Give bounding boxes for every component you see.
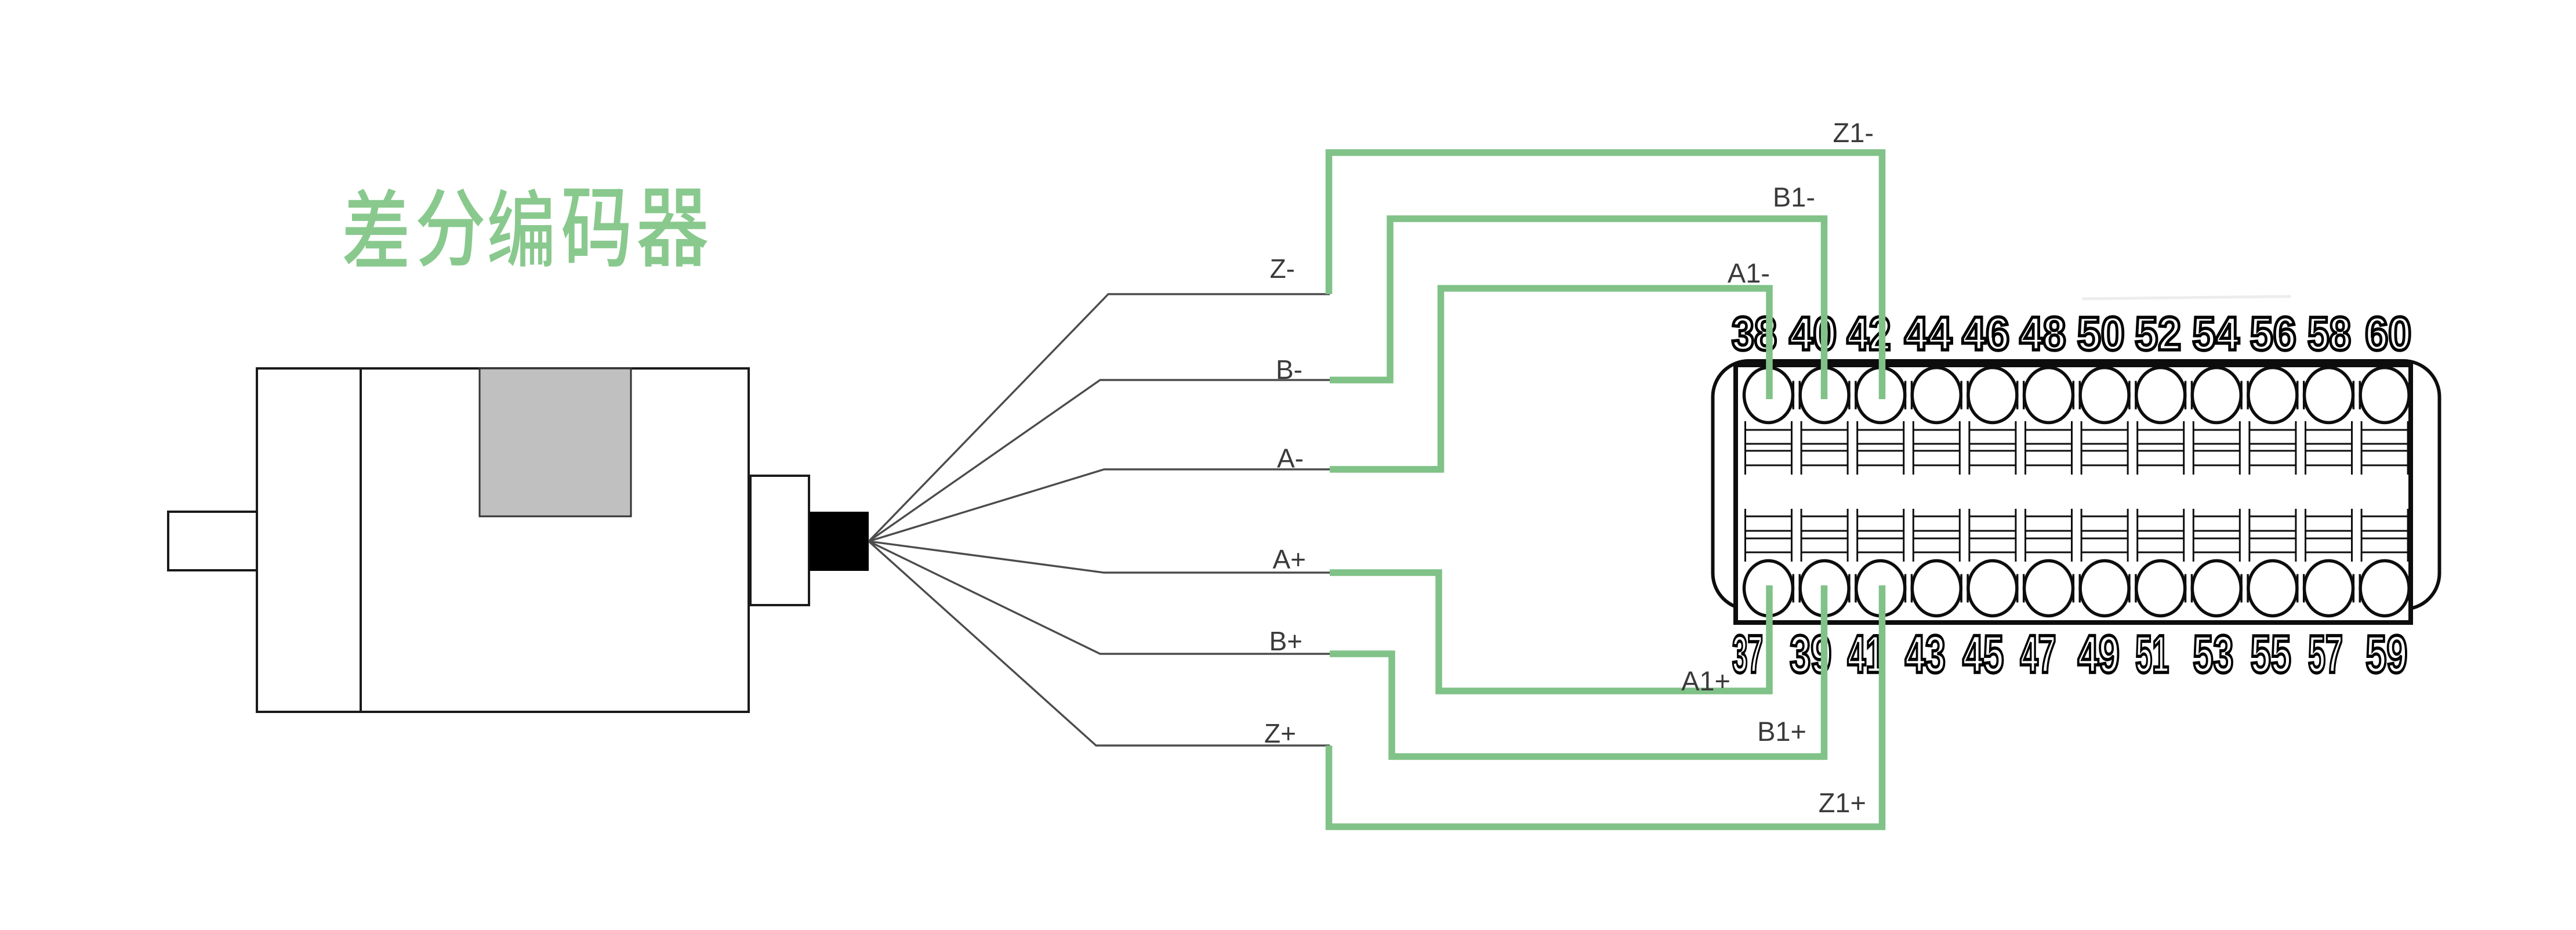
wire B+: [869, 541, 1330, 654]
wire Z-: [869, 294, 1330, 541]
svg-text:A+: A+: [1272, 544, 1306, 574]
green wire B- to pin 40: [1330, 219, 1824, 399]
pin circle 41: [1856, 561, 1905, 616]
contact ladder top 40: [1801, 421, 1848, 475]
title char 器: [638, 189, 708, 267]
contact ladder top 44: [1913, 421, 1960, 475]
pin circle 49: [2080, 561, 2129, 616]
pin circle 45: [1968, 561, 2017, 616]
contact ladder bottom 55: [2250, 509, 2296, 562]
bridge top 4: [2018, 381, 2024, 410]
motor body: [257, 368, 749, 712]
motor divider line: [360, 368, 362, 712]
green wire Z+ to pin 41: [1329, 585, 1882, 827]
pin circle 58: [2305, 368, 2353, 423]
svg-text:51: 51: [2135, 624, 2169, 683]
bridge top 9: [2298, 381, 2304, 410]
title char 分: [418, 189, 484, 266]
svg-text:B1+: B1+: [1757, 716, 1806, 747]
bridge top 8: [2241, 381, 2248, 410]
svg-text:41: 41: [1848, 625, 1884, 684]
pin circle 37: [1744, 561, 1793, 616]
pin circle 44: [1912, 368, 1961, 423]
contact ladder top 58: [2306, 421, 2352, 475]
contact ladder bottom 39: [1801, 509, 1848, 562]
svg-text:B1-: B1-: [1773, 182, 1815, 212]
bridge bottom 4: [2018, 574, 2024, 603]
contact ladder bottom 37: [1746, 509, 1792, 562]
contact ladder bottom 47: [2026, 509, 2072, 562]
svg-text:37: 37: [1732, 624, 1763, 684]
bridge bottom 3: [1961, 574, 1968, 603]
svg-text:B+: B+: [1269, 626, 1302, 656]
svg-text:44: 44: [1904, 306, 1952, 360]
bridge bottom 0: [1793, 574, 1799, 603]
bridge bottom 2: [1906, 574, 1912, 603]
svg-text:B-: B-: [1276, 354, 1302, 385]
svg-text:Z-: Z-: [1270, 254, 1295, 284]
svg-text:47: 47: [2020, 625, 2056, 685]
contact ladder top 60: [2361, 421, 2408, 475]
svg-text:46: 46: [1962, 306, 2009, 360]
bridge top 3: [1961, 381, 1968, 410]
svg-text:A1-: A1-: [1728, 258, 1770, 288]
green wire A+ to pin 37: [1330, 573, 1769, 691]
svg-text:55: 55: [2251, 624, 2291, 684]
bridge bottom 9: [2298, 574, 2304, 603]
pin circle 55: [2248, 561, 2297, 616]
contact ladder bottom 43: [1913, 509, 1960, 562]
wire A-: [869, 469, 1330, 541]
pin circle 42: [1856, 368, 1905, 423]
bridge top 7: [2186, 381, 2192, 410]
svg-text:53: 53: [2193, 624, 2233, 684]
wire B-: [869, 380, 1330, 541]
svg-text:49: 49: [2078, 624, 2120, 684]
pin circle 57: [2305, 561, 2353, 616]
contact ladder bottom 45: [1969, 509, 2016, 562]
svg-text:Z1+: Z1+: [1819, 787, 1866, 818]
bridge top 2: [1906, 381, 1912, 410]
pin circle 50: [2080, 368, 2129, 423]
pin circle 48: [2024, 368, 2073, 423]
green wire A- to pin 38: [1330, 288, 1769, 469]
motor gray block: [480, 368, 631, 516]
terminal block inner frame: [1736, 365, 2411, 623]
green wire B+ to pin 39: [1330, 585, 1824, 757]
svg-text:58: 58: [2307, 307, 2351, 360]
pin circle 39: [1800, 561, 1849, 616]
pin circle 38: [1744, 368, 1793, 423]
contact ladder top 42: [1857, 421, 1904, 475]
svg-text:45: 45: [1962, 624, 2004, 683]
svg-text:48: 48: [2020, 307, 2066, 360]
bridge bottom 1: [1849, 574, 1856, 603]
pin circle 52: [2136, 368, 2185, 423]
bridge top 6: [2129, 381, 2136, 410]
motor shaft: [168, 512, 257, 570]
svg-text:Z1-: Z1-: [1833, 117, 1874, 148]
contact ladder bottom 59: [2361, 509, 2408, 562]
contact ladder bottom 51: [2138, 509, 2184, 562]
bridge bottom 6: [2129, 574, 2136, 603]
bridge bottom 7: [2186, 574, 2192, 603]
contact ladder bottom 57: [2306, 509, 2352, 562]
wire A+: [869, 541, 1330, 573]
green wire Z- to pin 42: [1329, 153, 1882, 399]
title char 码: [563, 189, 629, 266]
pin circle 43: [1912, 561, 1961, 616]
pin circle 51: [2136, 561, 2185, 616]
terminal block outer rounded housing: [1713, 361, 2440, 609]
cable plug: [810, 512, 869, 571]
motor rear connector: [750, 476, 809, 605]
svg-text:Z+: Z+: [1264, 718, 1296, 748]
contact ladder top 48: [2026, 421, 2072, 475]
contact ladder bottom 53: [2193, 509, 2240, 562]
svg-text:40: 40: [1789, 306, 1837, 360]
svg-text:59: 59: [2365, 624, 2407, 684]
svg-text:60: 60: [2365, 307, 2411, 360]
pin circle 56: [2248, 368, 2297, 423]
pin circle 59: [2360, 561, 2409, 616]
contact ladder top 52: [2138, 421, 2184, 475]
contact ladder bottom 49: [2081, 509, 2128, 562]
title char 差: [344, 189, 407, 266]
contact ladder top 38: [1746, 421, 1792, 475]
pin circle 53: [2192, 561, 2241, 616]
contact ladder top 50: [2081, 421, 2128, 475]
svg-text:54: 54: [2192, 307, 2239, 360]
pin circle 54: [2192, 368, 2241, 423]
svg-text:56: 56: [2250, 307, 2296, 360]
title char 编: [489, 189, 552, 267]
bridge top 1: [1849, 381, 1856, 410]
bridge top 0: [1793, 381, 1799, 410]
svg-text:43: 43: [1905, 624, 1946, 684]
svg-text:A1+: A1+: [1681, 665, 1730, 696]
bridge top 10: [2353, 381, 2360, 410]
contact ladder top 54: [2193, 421, 2240, 475]
pin circle 40: [1800, 368, 1849, 423]
wire Z+: [869, 541, 1330, 746]
bridge bottom 8: [2241, 574, 2248, 603]
contact ladder top 46: [1969, 421, 2016, 475]
pin circle 47: [2024, 561, 2073, 616]
pin circle 46: [1968, 368, 2017, 423]
faint smudge line: [2082, 296, 2291, 299]
svg-text:A-: A-: [1277, 443, 1304, 473]
contact ladder bottom 41: [1857, 509, 1904, 562]
svg-text:50: 50: [2077, 306, 2125, 360]
svg-text:52: 52: [2135, 307, 2181, 360]
pin circle 60: [2360, 368, 2409, 423]
bridge top 5: [2073, 381, 2080, 410]
bridge bottom 10: [2353, 574, 2360, 603]
svg-text:57: 57: [2308, 624, 2343, 683]
bridge bottom 5: [2073, 574, 2080, 603]
contact ladder top 56: [2250, 421, 2296, 475]
